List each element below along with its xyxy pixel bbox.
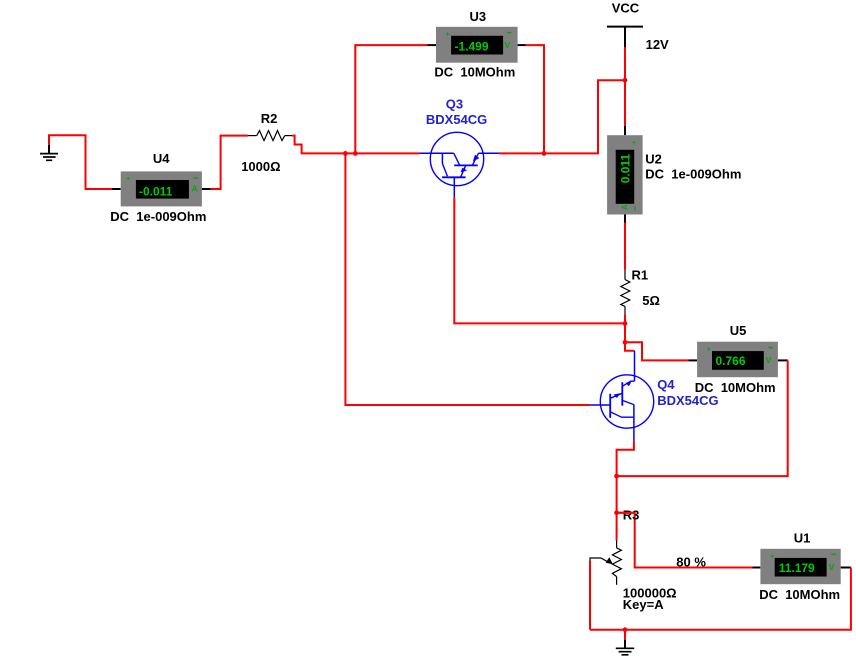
wire U1 right down to ground rail (590, 568, 851, 630)
svg-text:+: + (446, 29, 451, 38)
wire U4 right to R2 left (211, 136, 248, 189)
U5 left pin lead (688, 359, 697, 361)
U3 right pin lead (518, 44, 526, 46)
junction node D (R3 top) (614, 510, 619, 515)
U1 left pin lead (752, 567, 760, 569)
U2 top pin lead (624, 126, 626, 135)
wire U2 bottom to R1 top (624, 223, 626, 270)
wire Q3 emitter to VCC riser (499, 80, 625, 153)
svg-text:R1: R1 (632, 267, 649, 282)
potentiometer R3 (590, 541, 621, 585)
U4 right pin lead (202, 188, 211, 190)
wire R1 bottom to node A (624, 314, 626, 342)
transistor Q3 BDX54CG (PNP darlington) (419, 132, 499, 197)
wire node B to Q4 collector (625, 342, 635, 351)
U3 left pin lead (427, 44, 436, 46)
wire U5 right down to node C (617, 360, 788, 476)
U5 right pin lead (778, 359, 788, 361)
voltmeter U1 (760, 549, 840, 584)
wire ground1 to U4 left (49, 135, 112, 189)
svg-text:R3: R3 (623, 507, 640, 522)
svg-text:Key=A: Key=A (623, 597, 664, 612)
ammeter U2 (vertical) (607, 135, 643, 214)
junction VCC branch (623, 78, 628, 83)
svg-text:+: + (770, 551, 775, 560)
svg-text:BDX54CG: BDX54CG (657, 393, 718, 408)
svg-text:V: V (829, 562, 835, 572)
svg-text:Q3: Q3 (446, 97, 463, 112)
junction ground rail (623, 627, 628, 632)
wire R2 right to main node (steps) (292, 136, 419, 154)
wire node up to U3 left (355, 45, 427, 153)
wire Q4 emitter to node C (617, 441, 634, 512)
wire node B to U5 left (625, 342, 688, 360)
wire node A to Q3 collector (454, 197, 625, 323)
svg-text:+: + (707, 345, 712, 354)
svg-text:U5: U5 (730, 323, 747, 338)
svg-text:DC 10MOhm: DC 10MOhm (759, 587, 840, 602)
U4 left pin lead (112, 188, 121, 190)
svg-text:U4: U4 (153, 151, 170, 166)
junction node B (623, 340, 628, 345)
transistor Q4 BDX54CG (PNP darlington) (590, 351, 654, 442)
svg-text:-0.011: -0.011 (139, 184, 173, 198)
svg-text:A: A (619, 204, 629, 210)
voltmeter U3 (436, 27, 518, 63)
svg-text:+: + (126, 174, 131, 183)
svg-text:U3: U3 (470, 9, 487, 24)
svg-text:A: A (192, 184, 198, 194)
junction node at x=355 (353, 151, 358, 156)
wire R3 wiper to ground rail (589, 561, 591, 630)
svg-text:12V: 12V (646, 37, 669, 52)
junction node at x=345.5 (343, 151, 348, 156)
U2 bottom pin lead (624, 215, 626, 223)
VCC power symbol (607, 27, 643, 47)
svg-text:-1.499: -1.499 (455, 40, 489, 54)
wire U3 right down to main node (526, 45, 545, 153)
svg-text:V: V (505, 40, 511, 50)
svg-text:0.766: 0.766 (716, 354, 746, 368)
svg-text:BDX54CG: BDX54CG (426, 112, 487, 127)
ground GND2 (bottom) (616, 640, 634, 655)
svg-text:U1: U1 (794, 531, 811, 546)
multimeter U4 (121, 171, 202, 206)
wire ground stem (624, 630, 626, 640)
wire node D to U1 left (617, 513, 753, 568)
svg-text:DC 10MOhm: DC 10MOhm (434, 65, 515, 80)
voltmeter U5 (697, 342, 778, 378)
junction node C (614, 474, 619, 479)
wire VCC down to U2 top (624, 47, 626, 126)
svg-text:R2: R2 (261, 111, 278, 126)
U1 right pin lead (841, 567, 851, 569)
svg-text:80 %: 80 % (676, 555, 706, 570)
svg-text:11.179: 11.179 (779, 561, 815, 575)
svg-text:0.011: 0.011 (618, 154, 632, 184)
svg-text:DC 1e-009Ohm: DC 1e-009Ohm (110, 209, 206, 224)
svg-text:U2: U2 (645, 152, 662, 167)
ground GND1 (top-left) (40, 145, 58, 161)
svg-text:1000Ω: 1000Ω (241, 159, 280, 174)
wire node to Q4 base (down-right) (345, 153, 590, 405)
wire R3 wiper tap to U1 (from node D path) (617, 512, 635, 514)
junction at x=544 (542, 151, 547, 156)
svg-text:V: V (766, 355, 772, 365)
resistor R2 (248, 131, 292, 141)
svg-text:VCC: VCC (612, 0, 640, 15)
svg-text:Q4: Q4 (657, 377, 675, 392)
wire node D to R3 (616, 513, 618, 541)
svg-text:+: + (632, 138, 637, 147)
svg-text:DC 1e-009Ohm: DC 1e-009Ohm (645, 167, 741, 182)
svg-text:5Ω: 5Ω (642, 293, 660, 308)
resistor R1 (621, 270, 630, 315)
junction node A (R1 bottom) (623, 321, 628, 326)
